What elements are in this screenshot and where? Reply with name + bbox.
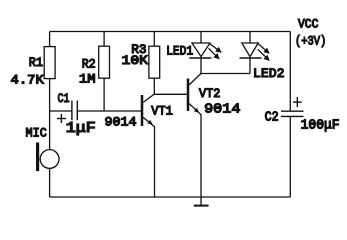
svg-text:(+3V): (+3V): [295, 33, 326, 48]
transistor VT1: [142, 94, 155, 127]
svg-text:100μF: 100μF: [301, 118, 340, 133]
svg-text:LED1: LED1: [166, 43, 193, 58]
LED LED2: [240, 43, 270, 60]
wire C1 to VT1 base: [77, 110, 141, 112]
wire LED2 to collector wire: [249, 58, 251, 74]
wire right rail lower (C2 to bottom rail): [289, 116, 291, 197]
wire VT1 emitter to bottom rail: [154, 127, 156, 198]
wire MIC to bottom rail: [49, 168, 51, 197]
wire top rail to LED1: [200, 32, 202, 44]
svg-text:VCC: VCC: [298, 17, 319, 32]
svg-text:R1: R1: [29, 55, 43, 70]
svg-text:4.7K: 4.7K: [11, 73, 44, 88]
wire R3 to VT1 collector: [153, 78, 155, 94]
wire R1 to MIC: [49, 79, 51, 150]
resistor R1: [44, 47, 55, 79]
wire top rail to R1: [49, 32, 51, 47]
resistor R3: [149, 46, 160, 78]
wire right rail upper (top rail to C2): [289, 32, 291, 112]
svg-text:LED2: LED2: [253, 66, 285, 81]
wire top rail to LED2: [249, 32, 251, 44]
wire VT2 emitter to ground: [200, 114, 202, 205]
svg-text:9014: 9014: [204, 101, 240, 117]
svg-text:1μF: 1μF: [66, 121, 96, 137]
wire bottom rail (ground bus): [50, 196, 291, 198]
wire R2 to VT1 base wire: [103, 78, 105, 111]
ground: [194, 205, 209, 207]
node R1/C1 junction wire to C1 left plate: [50, 110, 72, 112]
wire top rail to R3: [153, 32, 155, 47]
wire LED1 to VT2 collector node: [200, 58, 202, 74]
svg-text:C1: C1: [58, 91, 70, 106]
wire VT2 collector node to LED2: [201, 73, 250, 75]
capacitor C1: [72, 101, 77, 121]
svg-text:VT1: VT1: [151, 104, 173, 119]
resistor R2: [99, 46, 110, 78]
capacitor C2: [281, 111, 304, 116]
svg-text:9014: 9014: [105, 115, 137, 130]
svg-text:1M: 1M: [79, 72, 96, 87]
svg-text:VT2: VT2: [199, 86, 220, 101]
LED LED1: [189, 43, 221, 59]
transistor VT2: [188, 74, 201, 115]
wire top rail (VCC bus): [50, 31, 291, 33]
svg-text:C2: C2: [265, 110, 279, 126]
svg-text:10K: 10K: [122, 53, 149, 68]
label C1 polarity +: [57, 114, 66, 123]
microphone MIC: [36, 143, 59, 172]
wire VT1 collector to VT2 base: [154, 93, 187, 95]
label C2 polarity +: [293, 97, 302, 107]
svg-text:MIC: MIC: [26, 126, 47, 141]
svg-text:R2: R2: [82, 57, 96, 72]
wire top rail to R2: [103, 32, 105, 47]
